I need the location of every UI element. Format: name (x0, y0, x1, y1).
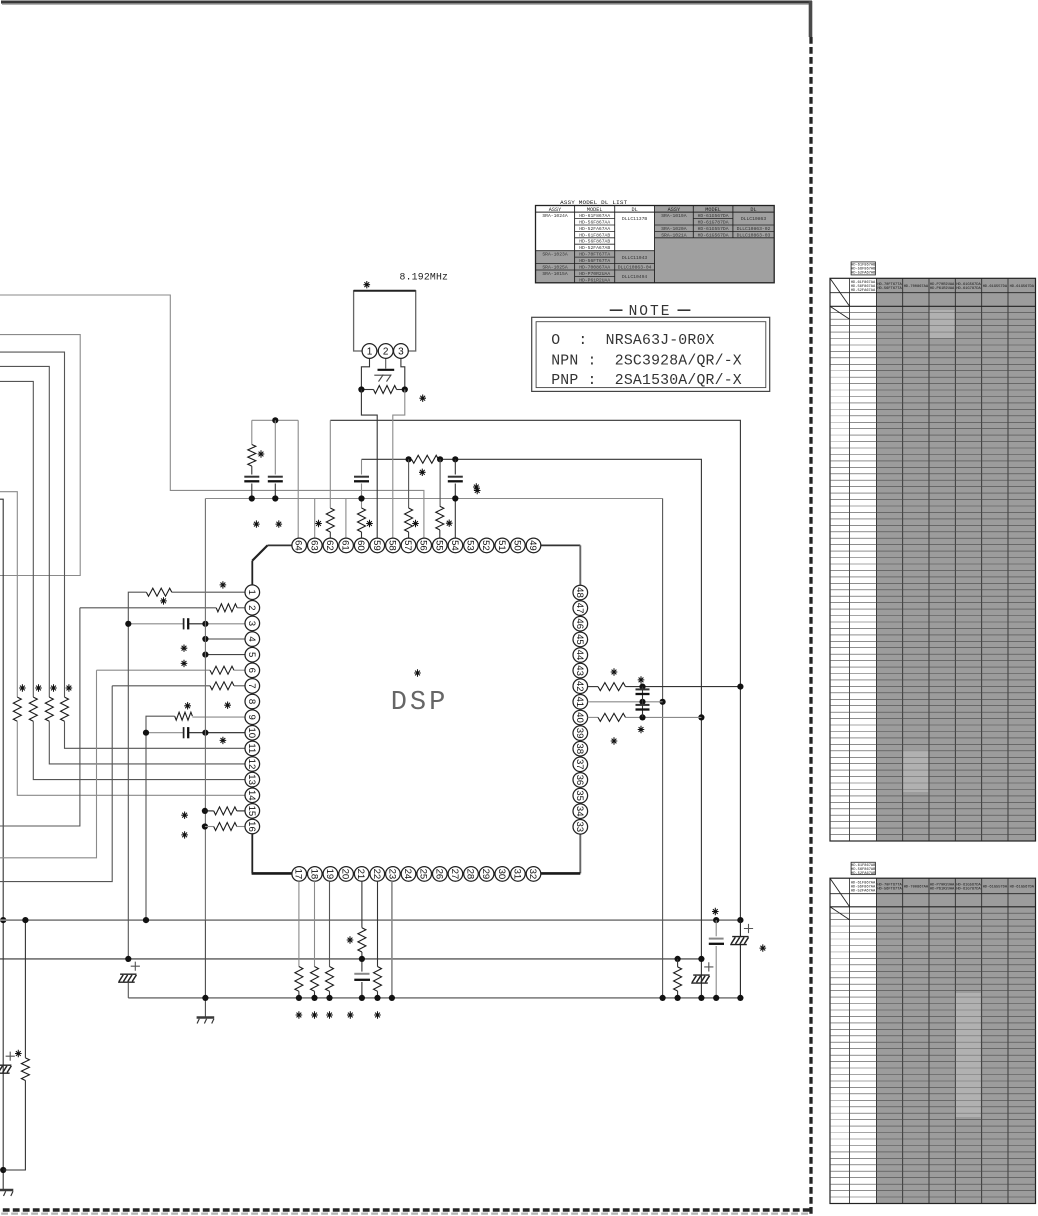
svg-text:36: 36 (574, 775, 585, 786)
capacitor C8 (354, 476, 369, 478)
junction (452, 456, 458, 462)
asterisk mark (15, 1050, 22, 1057)
asterisk mark (347, 1011, 354, 1018)
svg-text:46: 46 (574, 618, 585, 629)
wire net A to pin56 (0, 295, 424, 538)
svg-text:17: 17 (293, 869, 304, 880)
svg-text:HD-61G567DA: HD-61G567DA (1010, 886, 1035, 890)
junction (202, 621, 208, 627)
junction (452, 495, 458, 501)
asterisk mark (366, 520, 373, 527)
asterisk mark (474, 487, 481, 494)
svg-text:HD-61G557DA: HD-61G557DA (698, 226, 729, 232)
asterisk mark (181, 645, 188, 652)
capacitor C11 (636, 704, 650, 706)
junction (359, 956, 365, 962)
asterisk mark (276, 520, 283, 527)
net y459 (362, 458, 412, 460)
svg-text:19: 19 (324, 869, 335, 880)
asterisk mark (66, 684, 73, 691)
svg-text:HD-61G787DA: HD-61G787DA (698, 219, 729, 225)
junction (22, 917, 28, 923)
table1 diagonals (830, 278, 850, 306)
resistor R12 (214, 823, 237, 831)
svg-text:DLLC10494: DLLC10494 (622, 274, 648, 280)
asterisk mark (760, 944, 767, 951)
wire chain pin 6 (0, 670, 97, 858)
svg-text:DSP: DSP (391, 688, 449, 718)
wire pin19 drop + resistor (329, 881, 331, 966)
resistor R17 (405, 508, 413, 532)
asterisk mark (181, 812, 188, 819)
asterisk mark (638, 726, 645, 733)
table1 grid (876, 278, 1035, 841)
asterisk mark (220, 737, 227, 744)
svg-text:SRA-1015A: SRA-1015A (542, 271, 568, 277)
junction (660, 995, 666, 1001)
junction (202, 808, 208, 814)
table2 header box (851, 862, 875, 874)
junction (737, 995, 743, 1001)
junction (143, 730, 149, 736)
thick corner stub top-right (809, 1, 813, 37)
svg-text:HD-700867AA: HD-700867AA (904, 886, 929, 890)
resistor R11 (214, 807, 237, 815)
asterisk mark (220, 581, 227, 588)
junction (125, 956, 131, 962)
svg-text:HD-56F867AB: HD-56F867AB (579, 239, 610, 245)
svg-text:HD-700867AA: HD-700867AA (904, 285, 929, 289)
svg-text:DL: DL (631, 207, 637, 213)
svg-text:MODEL: MODEL (705, 207, 721, 213)
svg-text:2: 2 (246, 605, 257, 610)
junction (437, 456, 443, 462)
svg-text:14: 14 (246, 790, 257, 801)
svg-text:SRA-1021A: SRA-1021A (661, 232, 687, 238)
table2 grid (876, 878, 1035, 1203)
asterisk mark (414, 669, 421, 676)
svg-text:41: 41 (574, 696, 585, 707)
capacitor C6 (268, 476, 283, 478)
crystal pads 1 2 3 (362, 344, 377, 359)
svg-text:15: 15 (246, 806, 257, 817)
electrolytic capacitor C1 (0, 1064, 11, 1066)
svg-text:HD-61G787DA: HD-61G787DA (956, 888, 981, 892)
svg-text:28: 28 (465, 869, 476, 880)
cap pin10 row (146, 732, 183, 734)
asterisk mark (50, 684, 57, 691)
resistor R16 (358, 508, 366, 532)
junction (359, 995, 365, 1001)
svg-text:62: 62 (324, 540, 335, 551)
svg-text:DLLC10863-04: DLLC10863-04 (618, 264, 652, 270)
asterisk mark (258, 450, 265, 457)
wire pin17 drop + resistor (298, 881, 300, 966)
wire pin18 drop + resistor (314, 881, 316, 966)
resistor pin40 row (588, 716, 598, 718)
asterisk mark (35, 684, 42, 691)
ground (0, 1189, 13, 1191)
resistor R24 (326, 967, 334, 992)
junction (402, 386, 408, 392)
asterisk mark (374, 1011, 381, 1018)
table2 diagonals (830, 878, 850, 907)
resistor R20 (598, 683, 626, 691)
pin54 chain (454, 459, 456, 474)
wire pin61 (345, 499, 347, 539)
svg-text:NPN : 2SC3928A/QR/-X: NPN : 2SC3928A/QR/-X (551, 354, 742, 370)
wire+resistor chain to pin 11 (0, 352, 65, 697)
junction (698, 714, 704, 720)
asterisk mark (473, 483, 480, 490)
svg-text:8.192MHz: 8.192MHz (400, 272, 449, 283)
svg-text:O : NRSA63J-0R0X: O : NRSA63J-0R0X (551, 333, 714, 349)
svg-text:HD-61G787DA: HD-61G787DA (956, 287, 981, 291)
svg-text:42: 42 (574, 681, 585, 692)
svg-text:26: 26 (433, 869, 444, 880)
wire+resistor chain to pin 12 (0, 366, 49, 697)
svg-text:SRA-1024A: SRA-1024A (542, 213, 568, 219)
capacitor C3 (183, 618, 185, 629)
resistor R2 (45, 697, 53, 721)
wire pin63 (314, 499, 316, 539)
svg-text:35: 35 (574, 790, 585, 801)
resistor R9 (146, 588, 171, 596)
resistor pin42 row (588, 686, 598, 688)
svg-text:8: 8 (246, 699, 257, 704)
svg-text:DLLC1137B: DLLC1137B (622, 216, 648, 222)
top border bar (1, 1, 812, 4)
top-left RC branch: seg y420 (252, 419, 298, 421)
svg-text:50: 50 (511, 540, 522, 551)
capacitor C9 (448, 476, 463, 478)
junction (639, 684, 645, 690)
right drop x662.6 (662, 499, 664, 998)
asterisk mark (446, 520, 453, 527)
asterisk mark (419, 395, 426, 402)
capacitor C5 (244, 476, 259, 478)
svg-text:HD-52FA67AA: HD-52FA67AA (579, 226, 610, 232)
svg-text:4: 4 (246, 636, 257, 642)
junction (698, 995, 704, 1001)
pin60 chain: corner cap resistor (361, 459, 363, 474)
junction (272, 417, 278, 423)
asterisk mark (296, 1011, 303, 1018)
cap x716 (715, 920, 717, 936)
svg-text:18: 18 (308, 869, 319, 880)
junction (698, 956, 704, 962)
dashed page border right (809, 37, 812, 1216)
resistor R14 (326, 508, 334, 532)
asterisk mark (315, 520, 322, 527)
bus1 horizontal (0, 919, 740, 921)
svg-text:13: 13 (246, 774, 257, 785)
svg-text:10: 10 (246, 727, 257, 738)
svg-text:DLLC10863: DLLC10863 (741, 216, 767, 222)
wire pin64 drop (297, 420, 299, 538)
svg-text:ASSY: ASSY (549, 207, 562, 213)
pin22 drop + resistor (377, 881, 379, 966)
resistor R27 (674, 967, 682, 991)
asterisk mark (712, 908, 719, 915)
svg-text:2: 2 (383, 347, 389, 358)
svg-text:HD-52FA67AB: HD-52FA67AB (851, 872, 876, 876)
svg-text:20: 20 (340, 869, 351, 880)
electrolytic x740 (739, 920, 741, 937)
svg-text:56: 56 (418, 540, 429, 551)
svg-text:9: 9 (246, 715, 257, 720)
resistor R15 (412, 455, 439, 463)
svg-text:48: 48 (574, 587, 585, 598)
svg-text:59: 59 (371, 540, 382, 551)
svg-text:HD-52FA67AB: HD-52FA67AB (851, 272, 876, 276)
resistor R8 (210, 682, 234, 690)
junction (296, 995, 302, 1001)
svg-text:SRA-1019A: SRA-1019A (661, 213, 687, 219)
pin55 chain (439, 459, 441, 506)
DSP chip U1 outline (268, 544, 581, 546)
svg-text:ASSY: ASSY (668, 207, 681, 213)
cap chain x642.5 (642, 687, 644, 717)
junction (0, 917, 6, 923)
asterisk mark (638, 676, 645, 683)
svg-text:HD-56FT67TA: HD-56FT67TA (579, 258, 610, 264)
svg-text:40: 40 (574, 712, 585, 723)
svg-text:31: 31 (511, 869, 522, 880)
asterisk mark (181, 831, 188, 838)
resistor R6 (216, 604, 237, 612)
svg-text:33: 33 (574, 821, 585, 832)
wire pin5 stub (205, 654, 245, 656)
junction (202, 652, 208, 658)
svg-text:HD-P61R2UAA: HD-P61R2UAA (930, 287, 955, 291)
svg-text:DLLC10863-02: DLLC10863-02 (737, 226, 771, 232)
svg-text:58: 58 (386, 540, 397, 551)
bus2 horizontal (0, 958, 701, 960)
wire chain pin 7 (0, 686, 112, 882)
resistor R13 (248, 445, 256, 467)
svg-text:38: 38 (574, 743, 585, 754)
svg-text:63: 63 (308, 540, 319, 551)
svg-text:HD-P61R2UAA: HD-P61R2UAA (930, 888, 955, 892)
junction (125, 621, 131, 627)
svg-text:34: 34 (574, 806, 585, 817)
junction (358, 495, 364, 501)
svg-text:HD-61G567DA: HD-61G567DA (1010, 285, 1035, 289)
svg-text:HD-56FT67TA: HD-56FT67TA (877, 888, 902, 892)
net y498 (205, 498, 662, 500)
svg-text:MODEL: MODEL (587, 207, 603, 213)
asterisk mark (311, 1011, 318, 1018)
crystal internal wiring (361, 358, 369, 389)
resistor R3 (29, 697, 37, 721)
svg-text:43: 43 (574, 665, 585, 676)
junction (326, 995, 332, 1001)
svg-text:HD-61F867AA: HD-61F867AA (579, 213, 610, 219)
junction (406, 456, 412, 462)
electrolytic capacitor C12 (732, 936, 748, 938)
DSP pins 17-32 (292, 867, 307, 882)
svg-text:1: 1 (246, 590, 257, 595)
far-left vertical rail (0, 499, 3, 1189)
resistor R26 (374, 967, 382, 992)
svg-text:3: 3 (398, 347, 404, 358)
electrolytic capacitor C2 (120, 973, 136, 975)
cap pin3 row (128, 623, 183, 625)
capacitor C10 (636, 688, 650, 690)
svg-text:HD-56FT67TA: HD-56FT67TA (877, 287, 902, 291)
vertical rail x205 (204, 499, 206, 921)
svg-text:39: 39 (574, 728, 585, 739)
svg-text:21: 21 (355, 869, 366, 880)
junction (737, 917, 743, 923)
svg-text:HD-61G557DA: HD-61G557DA (983, 886, 1008, 890)
junction (202, 995, 208, 1001)
svg-text:37: 37 (574, 759, 585, 770)
pin23 drop (391, 881, 393, 998)
asterisk mark (611, 668, 618, 675)
svg-text:HD-52FA67AA: HD-52FA67AA (851, 289, 876, 293)
wire staple net B (0, 335, 80, 576)
DSP pins 64-49 (292, 538, 307, 553)
capacitor C4 (183, 727, 185, 738)
asterisk mark (253, 520, 260, 527)
crystal symbol under pin2 (385, 358, 387, 368)
asterisk mark (19, 684, 26, 691)
resistor R23 (311, 967, 319, 992)
junction (675, 956, 681, 962)
svg-text:HD-700867AA: HD-700867AA (579, 264, 610, 270)
svg-text:DLLC11043: DLLC11043 (622, 255, 648, 261)
resistor R21 (598, 713, 626, 721)
junction (660, 699, 666, 705)
svg-text:29: 29 (480, 869, 491, 880)
svg-text:HD-61F867AB: HD-61F867AB (579, 232, 610, 238)
svg-text:49: 49 (527, 540, 538, 551)
NOTE title (610, 309, 623, 311)
svg-text:61: 61 (340, 540, 351, 551)
bus3 horizontal (128, 997, 740, 999)
resistor R7 (210, 666, 234, 674)
svg-text:16: 16 (246, 821, 257, 832)
resistor R25 (358, 928, 366, 952)
table2 faded row patches (956, 993, 981, 1117)
resistor R22 (295, 967, 303, 992)
svg-text:57: 57 (402, 540, 413, 551)
wire resistor to bus2 (24, 920, 26, 1058)
cap branch x275.3 (274, 420, 276, 474)
svg-text:44: 44 (574, 650, 585, 661)
junction (639, 699, 645, 705)
svg-text:SRA-1020A: SRA-1020A (661, 226, 687, 232)
crystal box X1 (354, 291, 416, 351)
dashed page border bottom (0, 1208, 810, 1211)
svg-text:HD-52FA67AB: HD-52FA67AB (579, 245, 610, 251)
svg-text:64: 64 (293, 540, 304, 551)
table1 header box (851, 262, 875, 275)
svg-text:22: 22 (371, 869, 382, 880)
asterisk mark (160, 597, 167, 604)
wire+resistor chain to pin 14 (0, 492, 17, 697)
svg-text:HD-56F867AA: HD-56F867AA (579, 219, 610, 225)
svg-text:6: 6 (246, 668, 257, 673)
junction (202, 636, 208, 642)
resistor pin9 + drop (192, 716, 245, 718)
svg-text:DLLC10863-03: DLLC10863-03 (737, 232, 771, 238)
svg-text:5: 5 (246, 652, 257, 657)
junction (202, 823, 208, 829)
svg-text:32: 32 (527, 869, 538, 880)
svg-text:55: 55 (433, 540, 444, 551)
junction (202, 730, 208, 736)
table1 faded row patches (831, 367, 849, 446)
svg-text:HD-61G557DA: HD-61G557DA (983, 285, 1008, 289)
asterisk mark (326, 1011, 333, 1018)
svg-text:HD-70FT67TA: HD-70FT67TA (579, 252, 610, 258)
resistor+cap branch x251.8 (251, 420, 253, 444)
resistor R5 (21, 1058, 29, 1081)
asterisk mark (184, 702, 191, 709)
resistor R19 (374, 386, 397, 394)
svg-text:3: 3 (246, 621, 257, 626)
svg-text:45: 45 (574, 634, 585, 645)
pin21 drop resistor + cap (361, 881, 363, 928)
svg-text:HD-P61R2UAA: HD-P61R2UAA (579, 277, 610, 283)
branch to bottom-left resistor (3, 1081, 25, 1171)
asterisk mark (419, 469, 426, 476)
resistor R18 (436, 506, 444, 530)
ASSY table shading (536, 251, 655, 283)
junction (0, 1167, 6, 1173)
asterisk mark (412, 520, 419, 527)
resistor R pin1 (172, 591, 245, 593)
junction (272, 495, 278, 501)
svg-text:SRA-1025A: SRA-1025A (542, 264, 568, 270)
svg-text:52: 52 (480, 540, 491, 551)
svg-text:30: 30 (496, 869, 507, 880)
svg-text:54: 54 (449, 540, 460, 551)
asterisk mark (364, 281, 371, 288)
svg-text:1: 1 (367, 347, 373, 358)
svg-text:51: 51 (496, 540, 507, 551)
junction (374, 995, 380, 1001)
wire pin4 stub (205, 638, 245, 640)
junction (737, 684, 743, 690)
resistor R4 (13, 697, 21, 721)
junction (311, 995, 317, 1001)
asterisk mark (347, 936, 354, 943)
junction (249, 495, 255, 501)
wire+resistor chain to pin 13 (0, 381, 33, 697)
long wire y420 to right rail (330, 420, 740, 920)
svg-text:60: 60 (355, 540, 366, 551)
asterisk mark (611, 737, 618, 744)
svg-text:25: 25 (418, 869, 429, 880)
junction (713, 917, 719, 923)
DSP pins 1-16 (245, 585, 260, 600)
svg-text:11: 11 (246, 743, 257, 753)
resistor R1 (61, 697, 69, 721)
svg-text:PNP : 2SA1530A/QR/-X: PNP : 2SA1530A/QR/-X (551, 373, 742, 389)
svg-text:DL: DL (750, 207, 756, 213)
junction (389, 995, 395, 1001)
junction (675, 995, 681, 1001)
svg-text:7: 7 (246, 683, 257, 688)
wire pin41 row (588, 701, 663, 703)
wire chain pin 2 (0, 608, 80, 826)
NOTE box frame (532, 317, 770, 391)
ground (197, 1016, 215, 1018)
